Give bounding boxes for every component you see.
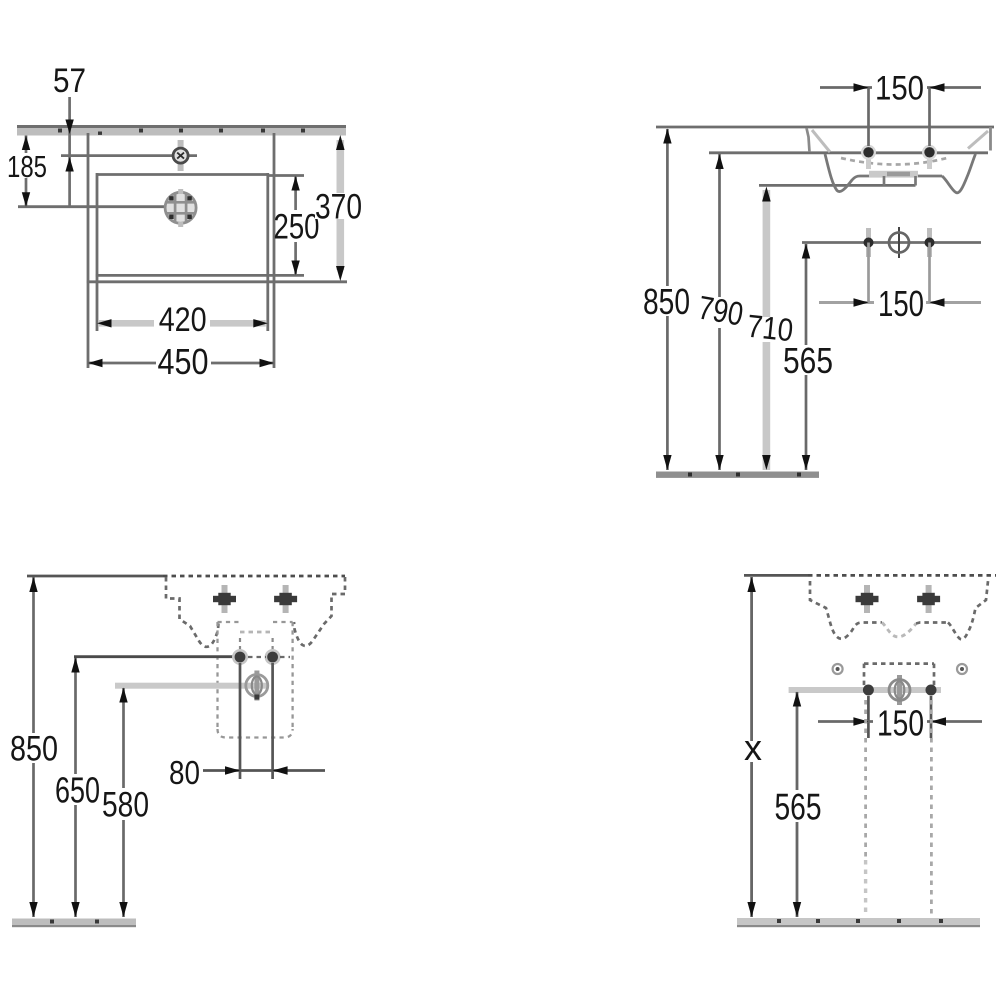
reference line 580 level (thick grey) <box>115 683 268 689</box>
basin centre tab (overflow block) <box>869 171 918 186</box>
bowl housing dashed box <box>218 622 293 738</box>
basin outer rectangle (left/right edges extended down as extension lines) <box>87 133 347 368</box>
mounting cross left <box>856 585 879 613</box>
top reference line (solid part) <box>744 574 808 577</box>
svg-text:850: 850 <box>10 730 58 769</box>
svg-text:150: 150 <box>875 70 924 108</box>
basin silhouette centre-right flat (dashed) <box>916 623 948 624</box>
bowl recess dashed line (light) <box>240 631 273 634</box>
extension lines for 80 dim <box>239 663 242 779</box>
svg-text:790: 790 <box>695 288 746 332</box>
dimension 650 (vertical) <box>55 658 100 918</box>
basin left bowl curve <box>825 154 870 192</box>
svg-text:185: 185 <box>7 149 47 184</box>
mounting cross right <box>917 585 940 613</box>
dashed segments on faucet line <box>248 656 290 658</box>
svg-text:x: x <box>744 727 762 768</box>
drain symbol (lattice) <box>165 189 196 227</box>
dimension 420 (thick grey dimension bar) <box>97 301 268 339</box>
mounting cross right <box>274 585 297 613</box>
reference line 790 level <box>709 151 988 154</box>
basin top edge (dashed) <box>808 574 996 577</box>
wall (hatched band) <box>17 125 346 136</box>
dimension 150 (bottom right) <box>818 703 982 744</box>
svg-text:850: 850 <box>643 281 690 322</box>
tap platform dashed box <box>864 664 934 686</box>
basin silhouette left steps (dashed) <box>166 577 219 647</box>
dimension 57 <box>53 62 86 207</box>
drain centre line <box>18 205 165 208</box>
extension line for 250 dim (top) <box>268 174 304 177</box>
svg-text:565: 565 <box>775 787 822 828</box>
basin silhouette centre dip (dashed) <box>882 623 916 637</box>
faucet hole centre line <box>61 154 197 157</box>
dimension 565 (vertical) <box>783 244 833 471</box>
top reference line 850 level (solid part) <box>27 575 163 578</box>
floor (hatched band) <box>737 918 980 927</box>
dimension 565 (vertical) <box>775 692 822 918</box>
mounting cross left <box>213 585 236 613</box>
dimension x (vertical) <box>744 577 762 917</box>
floor (hatched band) <box>12 919 136 928</box>
dimension 80 <box>169 754 325 791</box>
dimension 150 (middle, faucet spacing) <box>819 243 981 325</box>
hole extension dashes above circles <box>240 638 273 650</box>
side fixing holes <box>833 664 967 674</box>
dimension 710 (thick grey drain pipe bar) <box>745 187 795 471</box>
hidden bowl rim arc (dashed) <box>841 158 947 165</box>
faucet holes on line <box>863 685 937 696</box>
drain symbol (rear, crosshair with ellipse) <box>246 671 268 701</box>
dimension 850 (vertical) <box>10 577 58 917</box>
dimension 150 (top) <box>820 70 981 147</box>
basin right bowl curve <box>942 154 976 193</box>
reference line 565 level (faucet detail) <box>802 241 981 244</box>
basin silhouette right (dashed) <box>948 581 988 639</box>
faucet holes (rear) <box>232 649 281 665</box>
svg-text:580: 580 <box>102 786 149 825</box>
dimension 580 (vertical) <box>102 688 149 918</box>
faucet hole symbol <box>173 140 188 171</box>
basin top edge (dashed) <box>163 575 345 578</box>
basin outline left edge <box>807 128 810 152</box>
basin left rim slant (light) <box>812 130 830 152</box>
svg-text:250: 250 <box>274 208 320 247</box>
deck faucet holes <box>861 145 937 169</box>
pedestal dashed sides <box>866 700 932 917</box>
basin silhouette (dashed, front) left <box>810 581 882 639</box>
dimension 850 (vertical) <box>643 129 690 471</box>
dimension 790 (vertical) <box>695 154 746 470</box>
reference line 565 level (thick grey) <box>789 687 941 693</box>
basin inner bowl rectangle (edges extended for 420 dim) <box>96 173 304 331</box>
dimension 185 <box>6 136 48 207</box>
svg-text:450: 450 <box>158 341 209 382</box>
dimension 370 (thick grey dimension bar) <box>315 135 363 281</box>
extension lines through 150 dim <box>867 696 870 738</box>
floor (hatched band) <box>656 472 819 478</box>
basin bottom segment right of tab <box>918 175 942 178</box>
basin right rim slant (light) <box>968 131 988 149</box>
centre crosshair with ellipse <box>889 675 910 705</box>
svg-text:150: 150 <box>877 703 924 744</box>
dimension 450 <box>88 341 274 382</box>
svg-text:420: 420 <box>159 301 207 339</box>
svg-text:80: 80 <box>169 754 200 791</box>
svg-text:57: 57 <box>53 62 86 100</box>
svg-text:370: 370 <box>315 188 362 227</box>
svg-text:565: 565 <box>783 340 833 381</box>
dimension 250 <box>274 176 320 275</box>
svg-text:650: 650 <box>55 770 100 811</box>
faucet detail: side holes with light arms <box>864 228 935 257</box>
svg-text:150: 150 <box>878 283 924 324</box>
basin silhouette right steps (dashed) <box>294 577 345 646</box>
reference line 850 level (top of basin) <box>656 126 994 129</box>
faucet detail: centre crosshair <box>889 227 909 258</box>
basin right edge <box>989 127 992 151</box>
reference line 650 level (solid) <box>74 655 234 658</box>
reference line 710 level <box>759 184 916 187</box>
